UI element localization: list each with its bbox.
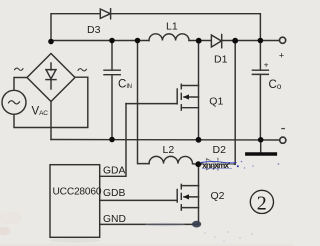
capacitor Co: [252, 41, 268, 141]
wire ground bus: [51, 139, 280, 142]
ac tilde left: [15, 68, 23, 70]
svg-text:2: 2: [257, 192, 267, 214]
wire D2 branch: [198, 163, 235, 165]
pin GDA wire to Q1 gate: [100, 104, 126, 177]
svg-text:L2: L2: [163, 144, 175, 156]
node L1/D1/Q1: [196, 38, 202, 44]
transistor Q2: [177, 184, 198, 210]
wire top bus with D3 bypass: [51, 14, 260, 42]
transistor Q1: [126, 84, 199, 110]
bridge rectifier: [27, 54, 75, 102]
wire L2 feed from + bus: [138, 41, 150, 164]
node Co top: [258, 38, 264, 44]
pin GND wire: [100, 223, 199, 225]
wire after L1 to output: [189, 40, 280, 42]
scan smudges: [0, 212, 293, 246]
svg-text:D3: D3: [87, 24, 101, 36]
wire Q2 drain vertical: [198, 164, 200, 185]
svg-text:GDA: GDA: [103, 166, 125, 177]
figure number 2 circle: [250, 190, 273, 214]
polarity - at lower output: [281, 128, 285, 130]
node ground: [258, 137, 264, 143]
svg-text:Q1: Q1: [209, 96, 223, 108]
ac tilde right: [78, 69, 86, 71]
diode D2: [207, 158, 218, 170]
wire bridge AC left to source: [14, 78, 27, 91]
wire rectified + bus: [51, 40, 149, 42]
svg-text:GDB: GDB: [103, 188, 125, 199]
wire D2 cathode up to + out: [234, 41, 236, 165]
IC U1 UCC28060 box: [50, 165, 100, 238]
diode D1: [211, 35, 221, 48]
svg-text:L1: L1: [166, 21, 178, 33]
svg-text:+: +: [264, 61, 269, 70]
pin GDB wire to Q2 gate: [100, 199, 178, 201]
terminal + output: [280, 37, 286, 43]
svg-text:+: +: [279, 51, 284, 61]
node Q1 source: [196, 137, 202, 143]
svg-text:D2: D2: [213, 144, 227, 156]
capacitor CIN: [104, 41, 120, 140]
wire bridge - to ground bus: [50, 102, 52, 140]
wire Q1 drain/source vertical: [198, 41, 200, 140]
node CIN top: [109, 38, 115, 44]
node L2/D2/Q2: [195, 161, 201, 167]
svg-text:UCC28060: UCC28060: [53, 187, 102, 198]
ground: [247, 140, 276, 154]
inductor L2: [149, 156, 198, 164]
node D2 cathode: [232, 38, 238, 44]
wire Q2 source to GND pin: [198, 186, 200, 225]
svg-text:Q2: Q2: [211, 190, 225, 202]
inductor L1: [149, 34, 189, 41]
diode D3: [100, 9, 110, 19]
node at bridge +: [48, 39, 54, 45]
node CIN bottom: [109, 137, 115, 143]
svg-text:D1: D1: [214, 54, 228, 66]
wire VAC bottom to bridge AC right: [14, 77, 88, 127]
watermark blue scribble over D2: [201, 160, 279, 170]
svg-text:GND: GND: [103, 214, 126, 225]
watermark faint speckles bottom: [204, 231, 253, 241]
node L2 feed: [135, 38, 141, 44]
source VAC: [2, 90, 26, 114]
junction blur GND pin: [192, 221, 201, 228]
terminal - output: [280, 137, 286, 143]
